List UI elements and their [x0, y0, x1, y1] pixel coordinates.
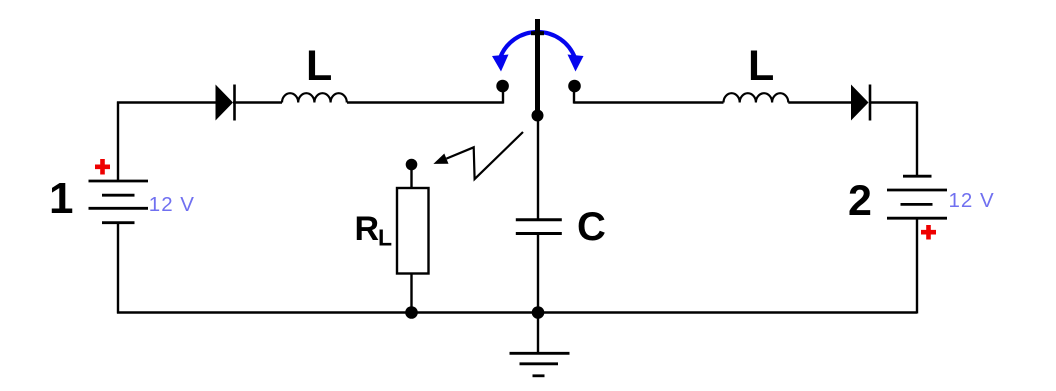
svg-text:12 V: 12 V: [949, 189, 995, 212]
svg-text:L: L: [748, 42, 774, 90]
wire right inductor to diode: [788, 101, 851, 103]
battery 2 (12 V), + at bottom: [887, 176, 947, 218]
node switch pivot: [532, 110, 544, 122]
ground: [510, 313, 570, 376]
wire switch pivot down to capacitor: [537, 114, 539, 219]
inductor L (left): [282, 93, 347, 102]
wire left inductor to switch left contact: [347, 90, 504, 104]
svg-text:1: 1: [49, 174, 73, 223]
svg-text:L: L: [306, 42, 332, 90]
pointer zigzag arrow (switch to resistor terminal): [433, 132, 523, 179]
node resistor bottom junction: [405, 306, 418, 319]
diode right D: [851, 85, 870, 121]
wire battery 1 bottom to bottom rail: [117, 223, 119, 314]
wire left vertical (top rail down to battery 1): [117, 102, 119, 182]
node center bottom junction: [532, 306, 545, 319]
node switch right contact: [568, 80, 581, 93]
wire diode to top-right corner and down to battery 2: [870, 102, 917, 177]
wire top-left horizontal (battery 1 top to diode): [117, 101, 216, 103]
capacitor C: [516, 220, 562, 234]
plus sign battery 1 (red): [95, 159, 110, 175]
svg-text:R: R: [355, 210, 380, 248]
resistor RL (box): [397, 188, 429, 274]
wire diode to left inductor: [233, 101, 282, 103]
battery 1 (12 V), + at top: [89, 181, 149, 223]
wire resistor bottom to rail: [410, 274, 412, 313]
wire resistor top: [410, 168, 412, 188]
node resistor top terminal: [406, 159, 418, 171]
svg-text:12 V: 12 V: [149, 193, 195, 216]
svg-text:C: C: [577, 205, 606, 249]
plus sign battery 2 (red): [921, 225, 936, 240]
wire bottom rail: [117, 311, 917, 313]
wire switch right contact to right inductor: [574, 90, 724, 104]
node switch left contact: [496, 80, 509, 93]
wire battery 2 bottom to bottom rail: [916, 218, 918, 313]
inductor L (right): [724, 93, 789, 102]
svg-text:2: 2: [848, 177, 872, 225]
black dash where arc crosses lever: [531, 31, 544, 35]
switch lever (thick vertical bar): [535, 19, 540, 114]
diode left D: [216, 85, 235, 121]
label RL: [355, 210, 393, 251]
blue toggle arc arrow: [492, 32, 584, 72]
svg-text:L: L: [378, 225, 392, 251]
wire capacitor to bottom rail: [537, 235, 539, 313]
